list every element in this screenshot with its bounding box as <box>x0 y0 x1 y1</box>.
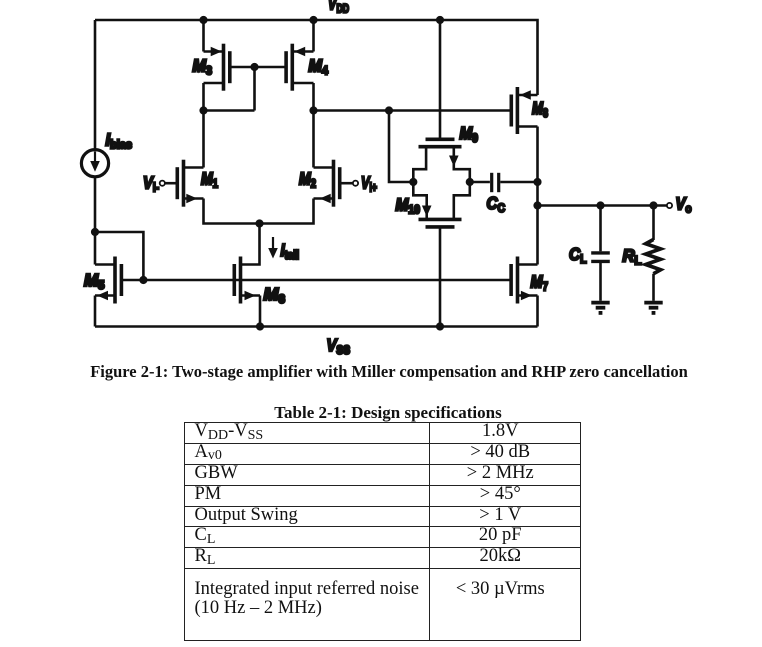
transistor M9 (gate up) <box>413 139 470 182</box>
wire stage1 output to M8 gate <box>314 109 512 112</box>
wire M9 gate to VDD <box>439 20 442 138</box>
wire M8 drain down to M7 drain <box>536 127 539 265</box>
wire tail to M6 drain <box>241 224 260 265</box>
wire M6 source to VSS <box>259 296 262 327</box>
wire CL top <box>599 206 602 252</box>
node M10-VSS <box>436 322 444 330</box>
transistor M4 <box>286 44 313 91</box>
wire M3 source to VDD <box>202 20 205 52</box>
node CL tap <box>596 201 604 209</box>
transistor M8 <box>511 87 537 134</box>
transistor M1 <box>165 160 204 207</box>
transistor M6 <box>234 257 260 304</box>
transistor M7 <box>511 257 537 304</box>
transistor M2 <box>314 160 353 207</box>
wire left rail upper <box>94 20 97 150</box>
capacitor Cc <box>492 173 499 192</box>
node first-stage left <box>199 106 207 114</box>
wire RL top <box>652 206 655 241</box>
wire gate bus M5-M6-M7 <box>121 279 511 282</box>
svg-text:VSS: VSS <box>327 335 351 357</box>
svg-text:M9: M9 <box>460 123 479 145</box>
svg-text:RL: RL <box>623 245 642 267</box>
current source Ibias <box>81 150 108 177</box>
svg-text:M5: M5 <box>84 270 105 292</box>
node M5 gate <box>139 276 147 284</box>
node Rz right <box>466 178 474 186</box>
svg-text:M8: M8 <box>532 98 548 120</box>
svg-text:Vi+: Vi+ <box>361 173 377 195</box>
svg-text:M1: M1 <box>201 169 218 191</box>
wire CL bottom <box>599 263 602 301</box>
svg-text:M4: M4 <box>309 56 329 78</box>
wire left rail lower (Ibias to M5 drain) <box>94 177 97 265</box>
svg-text:M6: M6 <box>264 284 286 306</box>
ground RL <box>644 303 662 313</box>
wire Rz to Cc <box>470 181 490 184</box>
ground CL <box>591 303 609 313</box>
wire M1 drain up <box>202 111 205 168</box>
wire Rz left link <box>389 111 413 183</box>
transistor M5 <box>95 257 121 304</box>
node M6-VSS <box>256 322 264 330</box>
resistor RL <box>646 240 661 274</box>
wire VSS rail <box>95 325 538 328</box>
wire M3-M4 gate link <box>230 66 286 69</box>
wire output bus <box>538 204 668 207</box>
svg-text:Ibias: Ibias <box>106 130 133 152</box>
svg-text:CC: CC <box>487 193 506 215</box>
wire Cc to output <box>500 181 537 184</box>
wire VDD rail <box>95 20 538 95</box>
node Rz left <box>409 178 417 186</box>
wire M2 drain up <box>312 111 315 168</box>
capacitor CL <box>591 253 610 262</box>
node RL tap <box>649 201 657 209</box>
node VDD-M3 <box>199 16 207 24</box>
current arrow Itail <box>268 237 278 259</box>
svg-text:M10: M10 <box>396 195 421 217</box>
transistor M10 (gate down) <box>413 182 470 227</box>
wire M3 drain down <box>202 83 205 111</box>
svg-text:Vo: Vo <box>676 194 692 216</box>
node Rz tap <box>385 106 393 114</box>
terminal Vo <box>667 203 672 208</box>
wire M7 source to VSS <box>536 296 539 327</box>
terminal Vi- <box>160 181 165 186</box>
node mirror gate <box>250 63 258 71</box>
terminal Vi+ <box>353 181 358 186</box>
transistor M3 <box>204 44 230 91</box>
node tail <box>255 219 263 227</box>
node bias-diode <box>91 228 99 236</box>
node Cc-output <box>533 178 541 186</box>
wire tail <box>204 199 314 224</box>
svg-text:M7: M7 <box>531 272 549 294</box>
svg-text:Vi-: Vi- <box>143 173 159 195</box>
node output tap <box>533 201 541 209</box>
wire mirror diode jog <box>204 67 255 111</box>
wire M4 source to VDD <box>312 20 315 52</box>
svg-text:M3: M3 <box>193 56 213 78</box>
node VDD-M4 <box>309 16 317 24</box>
node VDD-M9gate <box>436 16 444 24</box>
wire M5 source to VSS <box>94 296 97 327</box>
svg-text:VDD: VDD <box>328 0 349 16</box>
svg-text:M2: M2 <box>299 169 316 191</box>
wire M4 drain down <box>312 83 315 111</box>
svg-text:Itail: Itail <box>281 240 300 262</box>
node first-stage out <box>309 106 317 114</box>
wire diode link M5 <box>95 232 143 280</box>
wire RL bottom <box>652 274 655 301</box>
wire M10 gate to VSS <box>439 229 442 327</box>
svg-text:CL: CL <box>569 244 587 266</box>
